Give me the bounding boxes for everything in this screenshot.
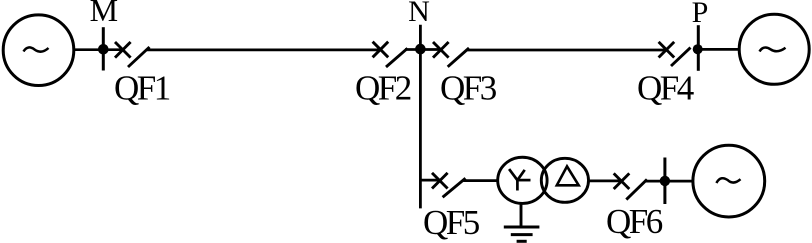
- wire node N to QF5: [420, 179, 439, 182]
- wire QF3 to QF4: [467, 49, 667, 52]
- wire QF5 to transformer T1: [464, 179, 499, 182]
- transformer T2 secondary winding circle: [541, 158, 588, 202]
- breaker QF1 blade: [128, 47, 150, 67]
- breaker QF6 contact X: [614, 173, 630, 189]
- svg-text:M: M: [90, 0, 118, 28]
- breaker QF4 blade: [671, 48, 691, 66]
- breaker QF3 contact X: [433, 42, 449, 58]
- svg-text:QF1: QF1: [114, 69, 170, 108]
- svg-text:P: P: [692, 0, 709, 29]
- generator G2 (right AC source): [739, 14, 809, 84]
- breaker QF5 blade: [443, 178, 466, 197]
- breaker QF5 contact X: [432, 173, 448, 189]
- breaker QF3 blade: [448, 48, 469, 67]
- node P bus bar: [697, 25, 700, 71]
- transformer T1 primary winding circle: [498, 157, 547, 203]
- breaker QF1 contact X: [115, 42, 131, 58]
- wire M to QF1: [103, 48, 123, 51]
- generator G3 (bottom AC source): [693, 145, 765, 217]
- delta symbol (secondary): [557, 166, 579, 185]
- ground stem: [520, 203, 523, 227]
- wire QF2 to node N: [405, 48, 420, 51]
- wire node N to QF3: [420, 48, 440, 51]
- node M junction dot: [98, 44, 109, 55]
- node N vertical wire: [419, 25, 422, 209]
- ground symbol: [504, 227, 540, 241]
- wire P to generator G2: [698, 48, 740, 51]
- junction dot at G3 node: [660, 176, 670, 186]
- svg-text:QF4: QF4: [637, 69, 694, 108]
- generator G1 (left AC source): [3, 15, 74, 86]
- breaker QF2 contact X: [373, 42, 389, 58]
- wire node to generator G3: [665, 180, 693, 183]
- wire G1 to node M: [74, 48, 103, 51]
- wire QF1 to QF2: [147, 49, 381, 52]
- wye symbol (primary): [509, 169, 530, 190]
- wire QF6 to node: [645, 180, 665, 183]
- svg-text:QF3: QF3: [440, 69, 497, 108]
- breaker QF4 contact X: [659, 42, 675, 58]
- breaker QF6 blade: [626, 179, 647, 199]
- node P junction dot: [693, 44, 703, 54]
- node N junction dot: [415, 44, 426, 55]
- wire T2 to QF6: [589, 180, 622, 183]
- svg-text:QF5: QF5: [423, 203, 480, 242]
- svg-text:QF2: QF2: [355, 69, 411, 108]
- breaker QF2 blade: [386, 48, 408, 67]
- svg-text:QF6: QF6: [606, 202, 663, 241]
- node M bus bar: [102, 27, 105, 70]
- node bus bar at G3: [663, 158, 666, 205]
- svg-text:N: N: [408, 0, 430, 28]
